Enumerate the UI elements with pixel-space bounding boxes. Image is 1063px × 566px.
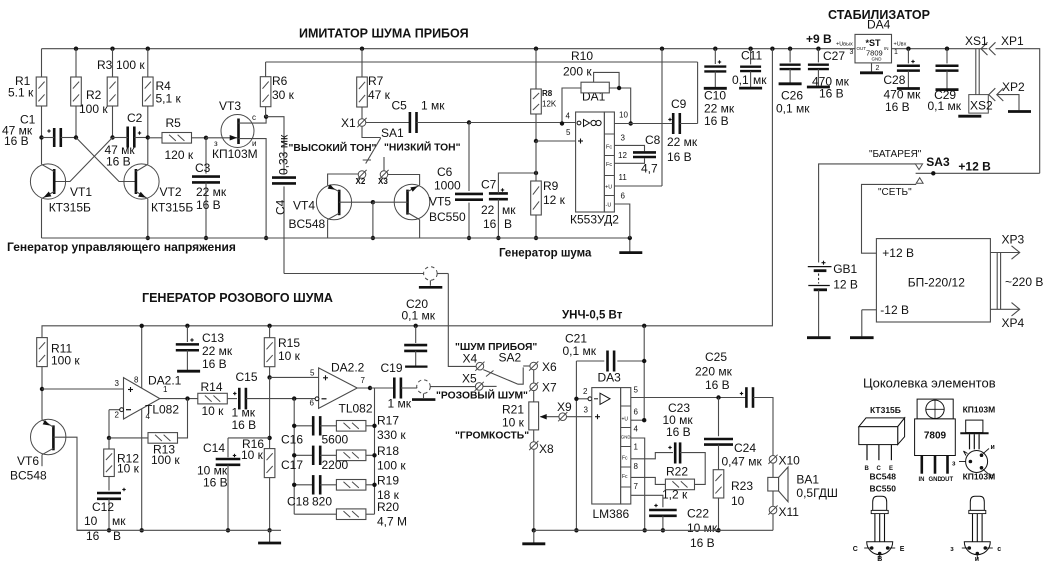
wire +U supply to DA1 pin11 xyxy=(660,47,664,51)
contact X5 xyxy=(475,383,483,391)
wire C7 top xyxy=(498,173,536,193)
svg-text:10 к: 10 к xyxy=(278,349,301,363)
contact X4 xyxy=(476,362,484,370)
svg-text:6: 6 xyxy=(310,399,315,408)
DA3 pin6 wire xyxy=(631,419,644,421)
svg-text:3: 3 xyxy=(584,406,589,415)
wire VT3 source xyxy=(239,139,267,238)
svg-text:100 к: 100 к xyxy=(377,459,406,473)
transistor VT5 xyxy=(394,184,430,220)
wire C7 bottom xyxy=(497,199,499,238)
svg-text:16 В: 16 В xyxy=(690,536,715,550)
svg-text:0,1 мк: 0,1 мк xyxy=(563,344,597,358)
svg-text:C22: C22 xyxy=(687,507,709,521)
svg-text:2: 2 xyxy=(115,411,120,420)
bottom ground rail (right) xyxy=(534,529,773,531)
contact X2 xyxy=(358,171,366,179)
svg-text:+12 В: +12 В xyxy=(958,160,991,174)
svg-text:В: В xyxy=(504,217,512,231)
svg-text:5,1 к: 5,1 к xyxy=(156,92,182,106)
node C5 out xyxy=(467,120,471,124)
svg-text:0,33 мк: 0,33 мк xyxy=(277,134,291,175)
wire R6 top feedback line xyxy=(266,61,698,63)
svg-text:КТ315Б: КТ315Б xyxy=(870,405,901,415)
capacitor C16 xyxy=(294,425,313,427)
RC ladder right rail xyxy=(374,388,376,514)
svg-text:OUT: OUT xyxy=(857,46,867,51)
svg-text:C25: C25 xyxy=(705,350,727,364)
svg-text:BC548: BC548 xyxy=(289,217,326,231)
svg-text:R3: R3 xyxy=(97,58,113,72)
svg-text:R18: R18 xyxy=(377,444,399,458)
svg-text:4,7: 4,7 xyxy=(641,162,658,176)
wire cross-coupling C1 node to VT2 base xyxy=(76,138,136,182)
capacitor C7 xyxy=(489,192,508,195)
power supply unit БП-220/12 xyxy=(876,239,990,322)
svg-text:6: 6 xyxy=(621,192,626,201)
svg-text:47 к: 47 к xyxy=(368,88,391,102)
wire to DA2.2 pin5 xyxy=(270,376,319,378)
wire R11 node to DA2.1 pin3 xyxy=(42,388,124,390)
capacitor C3 xyxy=(205,138,207,174)
svg-text:C16: C16 xyxy=(281,433,303,447)
svg-text:"БАТАРЕЯ": "БАТАРЕЯ" xyxy=(869,149,922,160)
svg-text:C3: C3 xyxy=(195,161,211,175)
svg-text:0,1 мк: 0,1 мк xyxy=(402,309,436,323)
pinout 7809 (TO-220) xyxy=(917,399,953,419)
svg-text:16: 16 xyxy=(483,217,497,231)
svg-text:мк: мк xyxy=(502,203,516,217)
svg-text:R9: R9 xyxy=(543,179,559,193)
svg-text:УНЧ-0,5 Вт: УНЧ-0,5 Вт xyxy=(562,310,623,322)
wire +9V supply line xyxy=(42,49,772,338)
svg-text:100 к: 100 к xyxy=(79,102,108,116)
resistor R5 xyxy=(162,133,192,144)
svg-text:16: 16 xyxy=(86,529,100,543)
capacitor C5 xyxy=(366,122,410,124)
wire DA1 pin10 out xyxy=(614,123,673,125)
svg-text:1: 1 xyxy=(634,443,639,452)
svg-text:DA3: DA3 xyxy=(598,371,622,385)
capacitor C17 xyxy=(294,454,313,456)
svg-text:R2: R2 xyxy=(86,88,102,102)
svg-text:5: 5 xyxy=(310,369,315,378)
svg-text:К553УД2: К553УД2 xyxy=(570,213,619,227)
svg-text:10: 10 xyxy=(84,514,98,528)
svg-text:BA1: BA1 xyxy=(796,473,819,487)
DA2.1 pin4 xyxy=(141,409,143,530)
DA4 ground pin xyxy=(871,63,873,72)
svg-text:16 В: 16 В xyxy=(667,150,692,164)
svg-text:820: 820 xyxy=(312,495,332,509)
svg-text:1 мк: 1 мк xyxy=(421,99,445,113)
DA3 pin2 wire xyxy=(576,398,588,400)
DA3 pin8 wire xyxy=(631,477,666,484)
svg-text:BC548: BC548 xyxy=(10,469,47,483)
svg-text:16 В: 16 В xyxy=(106,155,131,169)
wire to X5 xyxy=(430,386,475,388)
svg-text:C6: C6 xyxy=(437,165,453,179)
contact X11 xyxy=(772,491,774,506)
svg-text:XS1: XS1 xyxy=(965,34,988,48)
svg-text:SA1: SA1 xyxy=(381,126,404,140)
node R15/pin5 xyxy=(267,375,271,379)
resistor R3 xyxy=(110,47,114,51)
svg-text:C2: C2 xyxy=(127,111,143,125)
svg-text:10 к: 10 к xyxy=(117,462,140,476)
svg-text:16 В: 16 В xyxy=(666,425,691,439)
svg-text:C28: C28 xyxy=(883,73,905,87)
wire VT6 base to rail xyxy=(53,437,108,530)
svg-text:220 мк: 220 мк xyxy=(695,365,733,379)
capacitor C4 xyxy=(266,117,284,175)
capacitor C25 xyxy=(745,387,748,408)
svg-text:IN: IN xyxy=(919,477,925,483)
svg-text:3: 3 xyxy=(621,134,626,143)
wire DA1 pin3 to C8 xyxy=(614,145,644,151)
svg-text:C11: C11 xyxy=(741,49,762,63)
wire X3 stub xyxy=(383,157,385,171)
contact X10 xyxy=(769,456,777,464)
ground symbol right rail xyxy=(533,530,535,543)
svg-text:Fc: Fc xyxy=(606,162,612,168)
capacitor C26 xyxy=(788,47,792,51)
DA2.1 pin8 xyxy=(141,326,143,388)
wire cross-coupling C2 node to VT1 base xyxy=(54,138,112,182)
node R5/C3/VT3 gate xyxy=(204,136,208,140)
svg-text:16 В: 16 В xyxy=(704,114,729,128)
svg-text:2: 2 xyxy=(583,387,588,396)
svg-text:BC550: BC550 xyxy=(429,210,466,224)
wire VT2 emitter down xyxy=(147,199,149,238)
svg-text:XP4: XP4 xyxy=(1002,316,1025,330)
svg-text:C24: C24 xyxy=(734,441,756,455)
svg-text:330 к: 330 к xyxy=(377,428,406,442)
svg-text:10 к: 10 к xyxy=(202,404,225,418)
svg-text:VT1: VT1 xyxy=(70,185,92,199)
svg-text:7809: 7809 xyxy=(924,431,947,442)
ground bar near БП xyxy=(861,310,863,337)
svg-text:"ГРОМКОСТЬ": "ГРОМКОСТЬ" xyxy=(455,431,529,442)
svg-text:Генератор шума: Генератор шума xyxy=(499,248,592,260)
DA3 pin5 wire xyxy=(631,397,747,399)
capacitor C24 xyxy=(718,398,720,437)
svg-text:X7: X7 xyxy=(542,381,557,395)
svg-text:100 к: 100 к xyxy=(51,354,80,368)
contact X3 xyxy=(380,171,388,179)
svg-text:-U: -U xyxy=(606,203,612,209)
shielded lead (surf noise) xyxy=(284,273,424,275)
capacitor C18 xyxy=(294,484,313,486)
svg-text:4: 4 xyxy=(634,425,639,434)
wire VT3 drain xyxy=(239,117,267,123)
wire R1 to C1/VT1 node xyxy=(41,106,43,164)
capacitor C29 xyxy=(945,47,949,51)
cable XS1 to XS2 xyxy=(975,49,977,95)
svg-text:X1: X1 xyxy=(341,116,356,130)
node +9V to SA3 branch xyxy=(770,47,774,51)
svg-text:BC548: BC548 xyxy=(870,472,897,482)
node VT3 drain / R6 / C4 xyxy=(264,115,268,119)
svg-text:XP3: XP3 xyxy=(1002,233,1025,247)
svg-text:SA3: SA3 xyxy=(926,155,950,169)
wire node to DA1 pin5 xyxy=(536,140,576,142)
connector XP4 xyxy=(990,308,1019,310)
wire X8 to ground rail xyxy=(533,449,535,530)
svg-text:XS2: XS2 xyxy=(970,99,993,113)
svg-text:SA2: SA2 xyxy=(499,351,522,365)
resistor R15 xyxy=(267,324,271,328)
capacitor C22 xyxy=(649,509,677,512)
svg-text:КТ315Б: КТ315Б xyxy=(49,201,91,215)
svg-text:КП103М: КП103М xyxy=(963,472,996,482)
svg-text:X2: X2 xyxy=(356,177,366,186)
wire VT3 gate xyxy=(206,137,237,139)
svg-text:C14: C14 xyxy=(203,441,225,455)
wire DA3 supply drop xyxy=(642,324,646,328)
wire GB1 to ground xyxy=(818,290,820,337)
svg-text:C5: C5 xyxy=(392,99,408,113)
svg-text:X10: X10 xyxy=(779,454,801,468)
svg-text:1: 1 xyxy=(894,49,898,56)
svg-text:0,1 мк: 0,1 мк xyxy=(776,102,810,116)
wire R8 to node xyxy=(535,114,537,141)
svg-text:C13: C13 xyxy=(202,331,224,345)
svg-text:+U: +U xyxy=(622,417,629,423)
DA3 pin4 wire xyxy=(631,438,645,530)
DA3 pin1 wire xyxy=(631,453,673,459)
svg-text:VT6: VT6 xyxy=(17,454,39,468)
capacitor C15 xyxy=(238,388,241,410)
node under R3 xyxy=(112,106,114,138)
switch SA3 mains contact xyxy=(916,178,923,184)
svg-text:22 мк: 22 мк xyxy=(202,344,233,358)
resistor R4 xyxy=(146,47,150,51)
svg-text:"ВЫСОКИЙ ТОН": "ВЫСОКИЙ ТОН" xyxy=(289,141,377,154)
resistor R18 xyxy=(336,450,366,461)
ground symbol left rail xyxy=(269,530,271,542)
wire X9 to DA3 pin3 xyxy=(567,416,592,418)
svg-text:ИМИТАТОР ШУМА ПРИБОЯ: ИМИТАТОР ШУМА ПРИБОЯ xyxy=(299,27,469,41)
svg-text:DA2.2: DA2.2 xyxy=(331,361,365,375)
svg-text:Fc: Fc xyxy=(622,455,628,461)
resistor R6 xyxy=(265,62,267,77)
svg-text:GND: GND xyxy=(872,57,883,62)
svg-text:0,1 мк: 0,1 мк xyxy=(928,99,962,113)
wire VT4 collector to rail xyxy=(328,213,340,219)
svg-text:мк: мк xyxy=(753,73,767,87)
svg-text:R22: R22 xyxy=(666,464,688,478)
svg-text:22: 22 xyxy=(481,203,495,217)
svg-text:R15: R15 xyxy=(278,336,300,350)
svg-text:1000: 1000 xyxy=(434,179,461,193)
svg-text:8: 8 xyxy=(134,376,139,385)
capacitor C2 xyxy=(126,127,129,148)
svg-text:1: 1 xyxy=(163,385,168,394)
svg-text:1 мк: 1 мк xyxy=(388,397,412,411)
svg-text:5: 5 xyxy=(566,128,571,137)
wire VT5 collector to rail xyxy=(408,213,420,220)
svg-text:C19: C19 xyxy=(381,361,403,375)
svg-text:10: 10 xyxy=(619,111,628,120)
svg-text:C17: C17 xyxy=(281,458,303,472)
resistor R20 xyxy=(294,513,336,515)
DA3 pin7 wire xyxy=(631,495,663,507)
svg-text:3: 3 xyxy=(115,379,120,388)
svg-text:X5: X5 xyxy=(462,372,477,386)
svg-text:10: 10 xyxy=(731,494,745,508)
capacitor C19 xyxy=(370,387,394,389)
svg-text:-12 В: -12 В xyxy=(880,303,909,317)
shielded lead (pink noise) xyxy=(417,380,431,394)
svg-text:КП103М: КП103М xyxy=(212,147,258,161)
resistor R1 xyxy=(41,49,43,77)
capacitor C27 xyxy=(816,47,820,51)
svg-text:X4: X4 xyxy=(463,352,478,366)
capacitor C9 xyxy=(672,113,675,134)
DA2.1 output pin1 xyxy=(160,398,198,400)
wire C15 to DA2.2 pin6 xyxy=(246,398,316,400)
svg-text:12: 12 xyxy=(618,151,627,160)
svg-text:2200: 2200 xyxy=(322,458,349,472)
svg-text:X6: X6 xyxy=(542,360,557,374)
resistor R11 xyxy=(37,338,48,367)
svg-text:0,5ГДШ: 0,5ГДШ xyxy=(796,486,838,500)
svg-text:C15: C15 xyxy=(236,370,258,384)
svg-text:КП103М: КП103М xyxy=(963,405,996,415)
wire VT6 emitter stub xyxy=(42,448,53,454)
connector XP3 xyxy=(990,252,1019,254)
resistor R19 xyxy=(336,480,366,491)
svg-text:TL082: TL082 xyxy=(339,402,373,416)
C23 right to R22 xyxy=(680,453,705,485)
svg-text:С: С xyxy=(853,546,858,553)
wire X5 stub xyxy=(483,385,497,387)
svg-text:TL082: TL082 xyxy=(145,403,179,417)
pinout КП103М bottom view xyxy=(966,451,988,473)
svg-text:з: з xyxy=(214,139,218,148)
wire pin10 to +9V rail xyxy=(713,47,717,51)
svg-text:+9 В: +9 В xyxy=(806,32,832,46)
DA2.1 pin2 xyxy=(109,409,120,411)
svg-text:+Uвх: +Uвх xyxy=(894,42,907,48)
capacitor C11 xyxy=(748,47,752,51)
op-amp DA2.2 xyxy=(319,368,358,408)
capacitor C14 xyxy=(228,437,270,439)
svg-text:BC550: BC550 xyxy=(870,484,897,494)
capacitor C8 xyxy=(633,151,656,154)
svg-text:4: 4 xyxy=(566,112,571,121)
resistor R2 xyxy=(74,47,78,51)
svg-text:R14: R14 xyxy=(201,380,223,394)
contact X8 xyxy=(533,430,535,442)
svg-text:R19: R19 xyxy=(377,473,399,487)
wire VT4 base xyxy=(339,201,373,203)
svg-text:GND: GND xyxy=(621,435,631,440)
svg-text:Е: Е xyxy=(900,546,905,553)
wire X11 to rail xyxy=(772,514,774,530)
svg-text:8: 8 xyxy=(634,462,639,471)
DA2.2 output pin7 xyxy=(357,387,374,389)
wire to SA2 X4 xyxy=(448,274,476,367)
svg-text:+U: +U xyxy=(605,185,612,191)
svg-text:X9: X9 xyxy=(557,400,572,414)
svg-text:16 В: 16 В xyxy=(196,198,221,212)
svg-text:4,7 М: 4,7 М xyxy=(377,515,407,529)
svg-text:R7: R7 xyxy=(368,74,384,88)
potentiometer R21 xyxy=(533,391,535,402)
svg-text:C4: C4 xyxy=(274,199,288,215)
svg-text:4: 4 xyxy=(146,412,151,421)
svg-text:12 к: 12 к xyxy=(543,193,566,207)
svg-text:и: и xyxy=(991,444,995,451)
svg-text:100 к: 100 к xyxy=(116,58,145,72)
svg-text:7: 7 xyxy=(361,376,366,385)
svg-text:10 к: 10 к xyxy=(241,448,264,462)
svg-text:C7: C7 xyxy=(481,178,497,192)
contact X7 xyxy=(533,370,535,383)
svg-text:5600: 5600 xyxy=(322,433,349,447)
svg-text:VT5: VT5 xyxy=(429,195,451,209)
wire X2 to VT4 emitter xyxy=(328,174,359,185)
svg-text:БП-220/12: БП-220/12 xyxy=(908,276,966,290)
ground symbol DA1 xyxy=(629,238,631,252)
svg-text:X8: X8 xyxy=(539,442,554,456)
svg-text:5.1 к: 5.1 к xyxy=(8,86,34,100)
capacitor C13 xyxy=(185,324,189,328)
svg-text:XP1: XP1 xyxy=(1001,34,1024,48)
capacitor C23 xyxy=(674,442,677,463)
wire C21 ground branch xyxy=(575,361,577,530)
wire DA1 pin6 to ground xyxy=(614,204,629,238)
op-amp DA1 К553УД2 xyxy=(576,112,605,212)
wire R4 to VT2 node xyxy=(147,106,149,164)
voltage regulator DA4 xyxy=(855,34,892,63)
svg-text:Fc: Fc xyxy=(606,144,612,150)
svg-text:11: 11 xyxy=(619,173,628,182)
ground under XS2 xyxy=(958,115,981,118)
contact X9 xyxy=(559,413,567,421)
svg-text:R21: R21 xyxy=(502,403,524,417)
contact X6 xyxy=(530,362,538,370)
svg-text:5: 5 xyxy=(634,386,639,395)
svg-text:X11: X11 xyxy=(779,505,800,519)
transistor VT2 xyxy=(124,164,159,199)
svg-text:ГЕНЕРАТОР РОЗОВОГО ШУМА: ГЕНЕРАТОР РОЗОВОГО ШУМА xyxy=(142,291,333,305)
svg-text:XP2: XP2 xyxy=(1002,80,1025,94)
wire DA1 pin12 to C8 xyxy=(614,158,644,163)
svg-text:+12 В: +12 В xyxy=(882,246,914,260)
svg-text:10 мк: 10 мк xyxy=(687,521,718,535)
svg-text:з: з xyxy=(952,461,956,468)
svg-text:16 В: 16 В xyxy=(705,378,730,392)
connector XS1/XP1 xyxy=(981,42,988,55)
svg-text:и: и xyxy=(975,556,979,561)
wire VT5 base xyxy=(373,201,408,203)
svg-text:16 В: 16 В xyxy=(232,418,257,432)
capacitor C10 xyxy=(714,49,716,64)
svg-text:R20: R20 xyxy=(377,500,399,514)
svg-text:1,2 к: 1,2 к xyxy=(662,488,688,502)
resistor R17 xyxy=(336,421,366,432)
svg-text:"СЕТЬ": "СЕТЬ" xyxy=(878,187,912,198)
svg-text:120 к: 120 к xyxy=(165,148,194,162)
svg-text:16 В: 16 В xyxy=(819,87,844,101)
resistor R16 xyxy=(264,449,275,478)
wire C5 to DA1 pin4 xyxy=(469,122,576,124)
svg-text:0,1: 0,1 xyxy=(732,73,749,87)
resistor R23 xyxy=(713,470,724,498)
